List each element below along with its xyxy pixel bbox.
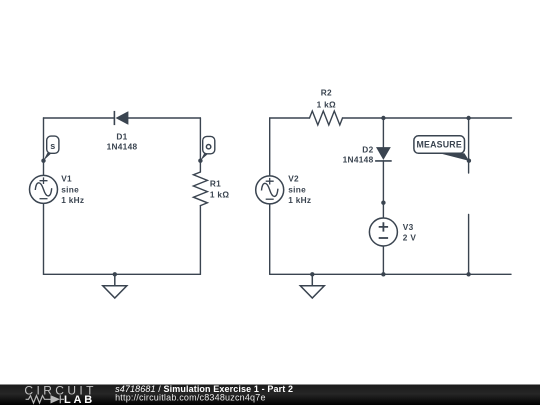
V3 labels [403, 222, 417, 242]
wire D1 cathode to top-right corner [128, 117, 200, 119]
junction dot right branch top rail [466, 116, 470, 120]
voltage source V2 [256, 176, 284, 204]
wire right branch lower stub [468, 214, 470, 274]
junction dot D2 branch bottom rail [381, 272, 385, 276]
svg-text:http://circuitlab.com/c8348uzc: http://circuitlab.com/c8348uzcn4q7e [115, 393, 266, 403]
V1 labels [61, 174, 84, 205]
svg-text:sine: sine [61, 184, 79, 194]
wire V2 top lead [269, 118, 271, 176]
ground left circuit [103, 274, 127, 298]
svg-text:2 V: 2 V [403, 232, 417, 242]
wire junction to V3 top [382, 203, 384, 218]
wire right branch upper stub [468, 118, 470, 173]
svg-text:V2: V2 [288, 174, 299, 184]
svg-text:1 kHz: 1 kHz [61, 195, 84, 205]
MEASURE flag [414, 136, 471, 163]
svg-text:D1: D1 [116, 131, 127, 141]
svg-text:R2: R2 [321, 88, 332, 98]
wire V1 top lead [43, 118, 45, 175]
voltage source V3 [369, 218, 397, 246]
D2 labels [343, 144, 374, 164]
junction dot D2 top rail [381, 116, 385, 120]
wire bottom rail of right circuit [270, 273, 511, 275]
resistor R1 [193, 172, 207, 206]
voltage source V1 [30, 175, 58, 203]
wire V1 bottom lead [43, 203, 45, 274]
resistor R2 [310, 111, 343, 125]
junction dot right branch bottom rail [466, 272, 470, 276]
wire V2 top to R2 [270, 117, 310, 119]
diode D2 [375, 147, 392, 161]
svg-text:1N4148: 1N4148 [107, 142, 138, 152]
junction dot D2-V3 [381, 201, 385, 205]
svg-text:V3: V3 [403, 222, 414, 232]
footer logo resistor symbol [26, 396, 47, 403]
svg-text:1 kΩ: 1 kΩ [210, 190, 229, 200]
R1 labels [210, 178, 229, 199]
wire top-right corner down to R1 [199, 118, 201, 172]
junction dot right ground [310, 272, 314, 276]
wire R2 to right end of top rail [343, 117, 512, 119]
wire R1 bottom to bottom-right corner [199, 206, 201, 275]
svg-text:sine: sine [288, 184, 306, 194]
wire V2 bottom lead [269, 204, 271, 275]
wire V3 bottom lead [382, 246, 384, 274]
node s flag [41, 136, 59, 163]
svg-text:LAB: LAB [64, 394, 95, 405]
wire D2 cathode to junction [382, 161, 384, 203]
wire D2 top lead [382, 118, 384, 147]
footer logo diode symbol [47, 395, 64, 403]
svg-text:s: s [50, 141, 55, 151]
D1 labels [107, 131, 138, 151]
svg-text:1 kΩ: 1 kΩ [317, 100, 336, 110]
diode D1 [114, 111, 128, 125]
svg-text:D2: D2 [362, 144, 373, 154]
wire bottom of left circuit [44, 273, 201, 275]
svg-text:MEASURE: MEASURE [417, 140, 462, 150]
footer bar [0, 385, 540, 405]
ground right circuit [300, 274, 324, 298]
node o flag [198, 136, 215, 163]
junction dot left ground [113, 272, 117, 276]
svg-text:R1: R1 [210, 178, 221, 188]
V2 labels [288, 174, 311, 205]
svg-text:V1: V1 [61, 174, 72, 184]
svg-text:1 kHz: 1 kHz [288, 195, 311, 205]
R2 labels [317, 88, 336, 110]
svg-text:1N4148: 1N4148 [343, 154, 374, 164]
wire top-left to D1 anode [44, 117, 115, 119]
